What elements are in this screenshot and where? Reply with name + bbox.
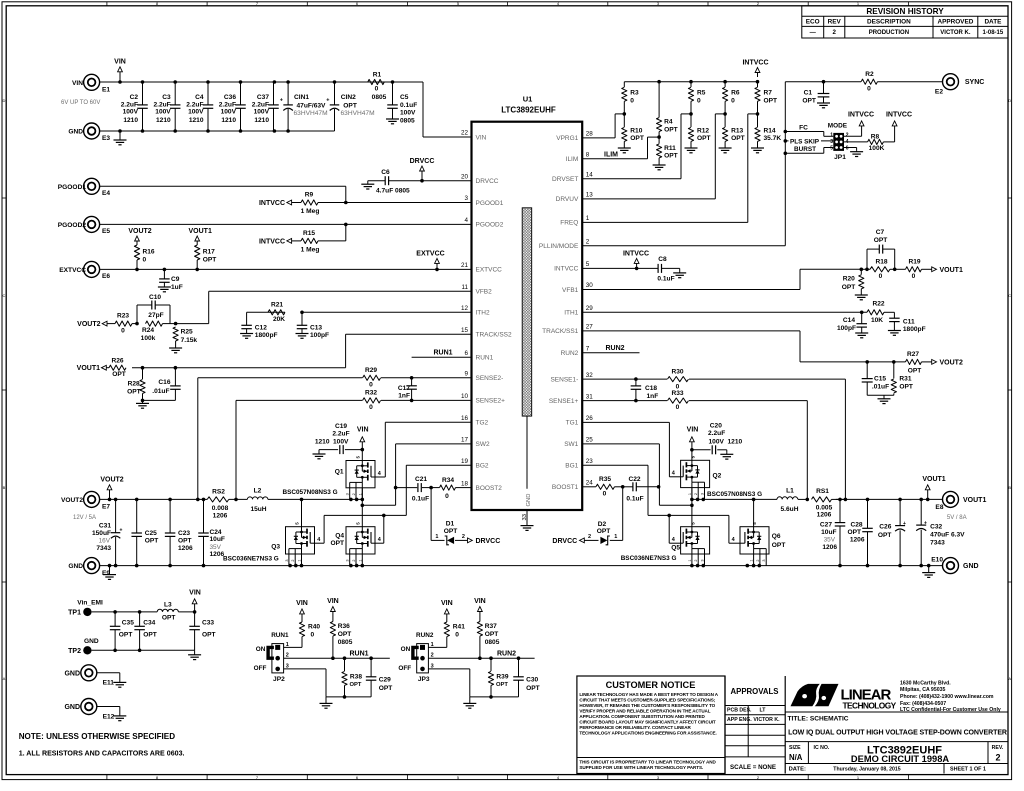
capacitor C21 [417, 483, 419, 492]
svg-text:OPT: OPT [330, 540, 344, 547]
svg-text:10uF: 10uF [210, 536, 225, 543]
svg-text:DRVCC: DRVCC [552, 538, 577, 545]
svg-text:C18: C18 [645, 385, 657, 392]
resistor R26 [109, 365, 126, 370]
svg-text:N/A: N/A [789, 753, 803, 762]
svg-text:Vin_EMI: Vin_EMI [77, 599, 103, 606]
terminal E10 GND [943, 558, 959, 574]
svg-text:PERFORMANCE OR RELIABILITY. C: PERFORMANCE OR RELIABILITY. CONTACT LINE… [579, 725, 691, 730]
svg-text:2: 2 [832, 29, 836, 36]
svg-text:FC: FC [799, 125, 808, 132]
svg-text:OPT: OPT [127, 388, 141, 395]
svg-text:VIN: VIN [72, 80, 83, 87]
net VIN arrow at R41 [446, 613, 448, 615]
svg-text:7.15k: 7.15k [181, 337, 198, 344]
svg-text:VFB1: VFB1 [562, 287, 579, 294]
net VIN arrow at R36 [332, 611, 334, 614]
svg-text:C11: C11 [903, 318, 915, 325]
svg-text:OPT: OPT [874, 237, 888, 244]
inductor L3 [157, 609, 178, 612]
svg-text:B: B [3, 485, 6, 490]
svg-text:0: 0 [912, 273, 916, 280]
svg-text:OPT: OPT [444, 528, 458, 535]
svg-text:1206: 1206 [817, 512, 832, 519]
ground at C6 [367, 181, 369, 185]
svg-text:RUN1: RUN1 [476, 355, 494, 362]
svg-text:DESCRIPTION: DESCRIPTION [867, 19, 911, 26]
svg-text:1: 1 [750, 559, 754, 561]
svg-text:OPT: OPT [202, 632, 216, 639]
svg-text:24: 24 [586, 480, 594, 487]
svg-text:31: 31 [586, 393, 594, 400]
wire pin 23 BG1 to Q5 Q6 gates [582, 464, 648, 466]
transistor Q2 [681, 460, 710, 487]
svg-text:SCALE = NONE: SCALE = NONE [730, 764, 776, 771]
svg-text:2: 2 [291, 559, 295, 561]
svg-text:TP2: TP2 [68, 648, 81, 655]
border zone ticks [106, 2, 108, 6]
capacitor C31 [115, 499, 117, 532]
svg-text:2.2uF: 2.2uF [219, 101, 236, 108]
svg-text:RUN2: RUN2 [561, 350, 579, 357]
svg-text:A: A [3, 676, 6, 681]
svg-text:Q6: Q6 [772, 533, 781, 540]
resistor R17 [195, 245, 200, 260]
svg-text:ON: ON [401, 646, 411, 653]
svg-text:FREQ: FREQ [560, 220, 578, 227]
wire VOUT2 rail [100, 498, 208, 500]
wire BURST row [785, 152, 824, 154]
wire JP2 pin2 RUN1 net [284, 657, 390, 659]
svg-text:0805: 0805 [485, 639, 500, 646]
title block box [785, 711, 1008, 713]
svg-text:BSC036NE7NS3 G: BSC036NE7NS3 G [223, 556, 279, 563]
svg-text:1: 1 [286, 642, 289, 648]
svg-text:27: 27 [586, 324, 594, 331]
resistor R25 [173, 327, 178, 341]
ground at C33 [194, 650, 196, 655]
resistor R12 [690, 114, 692, 127]
ground at E3 [119, 131, 121, 140]
wire TP1 rail [92, 611, 158, 613]
wire VIN to pin 22 [422, 82, 424, 137]
svg-text:VOUT2: VOUT2 [128, 228, 151, 235]
svg-text:0.1uF: 0.1uF [400, 102, 417, 109]
wire pin 6 RUN1 stub [412, 356, 472, 358]
svg-text:26: 26 [586, 415, 594, 422]
svg-text:1800pF: 1800pF [255, 332, 278, 339]
svg-text:0: 0 [697, 97, 701, 104]
svg-text:4: 4 [464, 217, 468, 224]
svg-text:C34: C34 [143, 620, 155, 627]
svg-text:OPT: OPT [143, 632, 157, 639]
capacitor C28 [867, 499, 869, 528]
svg-text:BSC057N08NS3 G: BSC057N08NS3 G [707, 491, 762, 498]
capacitor C23 [169, 499, 171, 533]
svg-text:C19: C19 [335, 423, 347, 430]
wire pin 16 TG2 to Q1 gate [385, 421, 471, 423]
svg-text:R19: R19 [908, 259, 920, 266]
svg-text:VOUT1: VOUT1 [77, 365, 100, 372]
svg-text:0: 0 [143, 257, 147, 264]
ground at JP3 [469, 697, 471, 704]
terminal E4 PGOOD1 [84, 178, 100, 194]
svg-text:10K: 10K [871, 317, 883, 324]
svg-text:OPT: OPT [343, 102, 357, 109]
svg-text:1: 1 [688, 493, 692, 495]
svg-text:7343: 7343 [930, 540, 945, 547]
svg-text:GND: GND [68, 129, 83, 136]
svg-text:0805: 0805 [372, 94, 387, 101]
capacitor C19 [345, 449, 362, 451]
svg-text:1uF: 1uF [171, 284, 183, 291]
svg-text:CIRCUIT BOARD LAYOUT MAY SIGNI: CIRCUIT BOARD LAYOUT MAY SIGNIFICANTLY A… [579, 720, 716, 725]
wire pin 11 VFB2 [209, 290, 472, 292]
resistor RS1 [812, 497, 832, 502]
svg-text:3: 3 [346, 493, 350, 495]
svg-text:C6: C6 [381, 169, 390, 176]
svg-text:ILIM: ILIM [566, 156, 579, 163]
wire pin 18 BOOST2 [456, 487, 472, 489]
resistor R10 [623, 114, 625, 127]
capacitor C20 [692, 449, 711, 451]
svg-text:13: 13 [586, 192, 594, 199]
svg-text:0: 0 [879, 273, 883, 280]
svg-text:OPT: OPT [485, 631, 499, 638]
junction dots VOUT2 rail [108, 498, 112, 502]
svg-text:E1: E1 [102, 86, 110, 93]
capacitor C34 [139, 612, 141, 626]
svg-text:100V: 100V [400, 110, 416, 117]
net VOUT1 arrow at R26 [102, 365, 107, 370]
node DRVCC arrow [420, 179, 424, 183]
svg-text:+: + [903, 521, 906, 527]
svg-text:APP ENG.: APP ENG. [727, 717, 752, 723]
svg-text:9: 9 [464, 371, 468, 378]
capacitor CIN2 [334, 82, 336, 105]
svg-text:L1: L1 [786, 488, 794, 495]
svg-text:R15: R15 [303, 230, 315, 237]
svg-text:OPT: OPT [664, 126, 678, 133]
svg-text:TP1: TP1 [68, 609, 81, 616]
svg-text:R26: R26 [111, 357, 123, 364]
capacitor C37 [273, 82, 275, 105]
svg-text:C24: C24 [210, 529, 222, 536]
svg-text:VFB2: VFB2 [476, 289, 493, 296]
wire JP1 pin6 to ground [844, 147, 857, 149]
svg-text:100V: 100V [221, 108, 237, 115]
svg-text:1nF: 1nF [647, 393, 659, 400]
svg-text:OPT: OPT [496, 682, 508, 688]
svg-text:R10: R10 [630, 128, 642, 135]
svg-text:VERIFY PROPER AND RELIABLE OPE: VERIFY PROPER AND RELIABLE OPERATION IN … [579, 709, 710, 714]
svg-text:SENSE2-: SENSE2- [476, 375, 504, 382]
svg-text:D: D [1008, 98, 1011, 103]
svg-text:R36: R36 [338, 623, 350, 630]
capacitor C24 [203, 499, 205, 533]
svg-text:100pF: 100pF [837, 325, 856, 332]
resistor R33 [668, 398, 689, 403]
svg-text:15uH: 15uH [250, 506, 266, 513]
svg-text:C10: C10 [149, 294, 161, 301]
svg-text:RUN2: RUN2 [605, 345, 624, 352]
transistor Q1 [346, 461, 375, 488]
svg-text:1 Meg: 1 Meg [301, 246, 320, 253]
resistor R34 [440, 485, 456, 490]
svg-text:100V: 100V [155, 108, 171, 115]
svg-text:TG1: TG1 [566, 420, 579, 427]
net VOUT1 arrow at R19 [932, 267, 937, 272]
svg-text:VOUT1: VOUT1 [922, 476, 945, 483]
svg-text:1: 1 [358, 559, 362, 561]
wire pin 15 TRACK/SS2 [346, 333, 472, 335]
diode D1 [430, 488, 432, 541]
junction dots GND rail [108, 564, 112, 568]
svg-text:VOUT2: VOUT2 [940, 359, 963, 366]
svg-text:0805: 0805 [400, 117, 415, 124]
capacitor C35 [114, 612, 116, 626]
capacitor C5 [392, 82, 394, 105]
svg-text:D: D [3, 98, 6, 103]
svg-text:OPT: OPT [597, 528, 611, 535]
svg-text:0: 0 [630, 97, 634, 104]
svg-text:EXTVCC: EXTVCC [416, 251, 444, 258]
svg-text:TECHNOLOGY APPLICATIONS ENGINE: TECHNOLOGY APPLICATIONS ENGINEERING FOR … [579, 730, 716, 735]
svg-text:2: 2 [694, 559, 698, 561]
wire JP2 pin3 to ground [284, 668, 326, 670]
svg-text:R21: R21 [271, 302, 283, 309]
svg-text:OFF: OFF [398, 665, 411, 672]
svg-text:SENSE2+: SENSE2+ [476, 398, 506, 405]
resistor RS2 [207, 497, 229, 502]
resistor R28 [142, 368, 144, 379]
svg-text:35.7K: 35.7K [764, 135, 782, 142]
svg-text:0.1uF: 0.1uF [657, 276, 674, 283]
svg-text:47uF/63V: 47uF/63V [297, 102, 327, 109]
svg-text:1210: 1210 [189, 117, 204, 124]
svg-text:C15: C15 [874, 376, 886, 383]
svg-text:1206: 1206 [850, 537, 865, 544]
svg-text:CIN2: CIN2 [341, 94, 356, 101]
svg-text:VPRG1: VPRG1 [556, 135, 578, 142]
wire pin 10 SENSE2+ [381, 399, 472, 401]
capacitor C14 [861, 312, 863, 323]
svg-text:LTC3892EUHF: LTC3892EUHF [501, 106, 556, 115]
svg-text:JP2: JP2 [273, 676, 285, 683]
svg-text:E10: E10 [931, 557, 943, 564]
svg-text:30: 30 [586, 282, 594, 289]
svg-text:3: 3 [346, 559, 350, 561]
net VIN arrow at R37 [479, 611, 481, 614]
svg-text:C26: C26 [879, 524, 891, 531]
resistor R6 [724, 82, 726, 87]
svg-text:R39: R39 [496, 674, 508, 681]
svg-text:R7: R7 [764, 90, 773, 97]
svg-text:0: 0 [311, 632, 315, 639]
svg-text:TRACK/SS2: TRACK/SS2 [476, 332, 513, 339]
Q6 source stubs [754, 548, 767, 550]
svg-text:SW2: SW2 [476, 441, 490, 448]
svg-text:C1: C1 [804, 90, 813, 97]
svg-text:DRVUV: DRVUV [556, 196, 579, 203]
svg-text:1: 1 [614, 534, 617, 540]
svg-text:GND: GND [84, 638, 99, 645]
svg-text:18: 18 [461, 480, 469, 487]
terminal E6 EXTVCC [84, 261, 100, 277]
terminal E12 GND [81, 699, 97, 715]
svg-text:PLLIN/MODE: PLLIN/MODE [539, 243, 579, 250]
resistor R35 [596, 484, 615, 489]
svg-text:B: B [1008, 485, 1011, 490]
svg-text:+: + [280, 98, 283, 104]
svg-text:3: 3 [285, 559, 289, 561]
svg-text:0: 0 [676, 404, 680, 411]
svg-text:0.005: 0.005 [816, 504, 833, 511]
svg-text:OPT: OPT [908, 368, 922, 375]
svg-text:OPT: OPT [203, 257, 217, 264]
wire pin 5 INTVCC [582, 267, 658, 269]
svg-text:1800pF: 1800pF [903, 326, 926, 333]
terminal E8 VOUT1 [943, 491, 959, 507]
capacitor C12 [246, 312, 248, 325]
terminal E3 GND [84, 123, 100, 139]
svg-text:10: 10 [461, 393, 469, 400]
svg-text:R33: R33 [671, 390, 683, 397]
svg-text:VOUT2: VOUT2 [100, 477, 123, 484]
junction dots EXTVCC [135, 268, 139, 272]
svg-text:1: 1 [298, 559, 302, 561]
wire VPRG1 pin 28 [615, 113, 624, 115]
svg-text:C30: C30 [526, 677, 538, 684]
svg-text:10uF: 10uF [821, 529, 836, 536]
svg-text:1nF: 1nF [398, 393, 410, 400]
svg-text:SENSE1+: SENSE1+ [549, 398, 579, 405]
junction dot C19 VIN [361, 448, 365, 452]
capacitor C36 [240, 82, 242, 105]
svg-text:R11: R11 [664, 145, 676, 152]
svg-text:RUN2: RUN2 [416, 632, 434, 639]
svg-text:1210: 1210 [221, 117, 236, 124]
wire pin 32 SENSE1- [582, 378, 667, 380]
svg-text:E6: E6 [102, 273, 110, 280]
capacitor C6 [384, 176, 386, 185]
svg-text:RUN2: RUN2 [497, 650, 516, 657]
svg-text:100K: 100K [869, 145, 885, 152]
net VOUT2 arrow at R23 [102, 321, 107, 326]
svg-text:ITH1: ITH1 [564, 310, 578, 317]
net VIN arrow at L3 [194, 604, 196, 612]
svg-text:APPLICATION. COMPONENT SUBSTI: APPLICATION. COMPONENT SUBSTITUTION AND … [579, 714, 705, 719]
wire SW1 rail to L1 [692, 498, 777, 500]
wire GND rail input [100, 130, 335, 132]
wire EXTVCC net [100, 268, 472, 270]
svg-text:C27: C27 [820, 522, 832, 529]
svg-text:2.2uF: 2.2uF [708, 430, 725, 437]
svg-text:0: 0 [731, 97, 735, 104]
ground at JP2 [325, 697, 327, 704]
svg-text:VOUT1: VOUT1 [963, 497, 986, 504]
svg-text:R4: R4 [664, 119, 673, 126]
svg-text:CIRCUIT THAT MEETS CUSTOMER-SU: CIRCUIT THAT MEETS CUSTOMER-SUPPLIED SPE… [579, 698, 715, 703]
transistor Q4 [346, 527, 375, 554]
svg-text:E11: E11 [103, 680, 115, 687]
svg-text:2: 2 [352, 493, 356, 495]
svg-text:1630 McCarthy Blvd.: 1630 McCarthy Blvd. [900, 680, 951, 686]
wire FREQ pin 1 [748, 113, 758, 115]
ground at C15 R31 [883, 395, 885, 399]
svg-text:CUSTOMER NOTICE: CUSTOMER NOTICE [606, 680, 696, 690]
resistor R38 [344, 658, 346, 671]
svg-text:R1: R1 [373, 71, 382, 78]
svg-text:3: 3 [464, 195, 468, 202]
svg-text:E2: E2 [935, 89, 943, 96]
svg-text:16: 16 [461, 415, 469, 422]
svg-text:C37: C37 [257, 94, 269, 101]
svg-text:CIN1: CIN1 [294, 94, 309, 101]
net VOUT2 arrow at R27 [932, 360, 937, 365]
capacitor C32 [920, 499, 922, 524]
svg-text:R6: R6 [731, 90, 740, 97]
svg-text:.01uF: .01uF [872, 384, 889, 391]
revision history table [802, 6, 1008, 38]
svg-text:GND: GND [64, 704, 80, 711]
svg-text:R22: R22 [872, 300, 884, 307]
svg-text:VIN: VIN [357, 427, 369, 434]
svg-text:BURST: BURST [794, 146, 816, 153]
svg-text:SUPPLIED FOR USE WITH LINEAR T: SUPPLIED FOR USE WITH LINEAR TECHNOLOGY … [579, 765, 703, 770]
net VOUT1 arrow above R17 [196, 240, 198, 242]
svg-text:—: — [810, 29, 817, 36]
svg-text:BSC057N08NS3 G: BSC057N08NS3 G [283, 489, 338, 496]
svg-text:0: 0 [375, 86, 379, 93]
svg-text:R35: R35 [599, 476, 611, 483]
svg-text:OPT: OPT [697, 135, 711, 142]
svg-text:0: 0 [121, 327, 125, 334]
resistor R40 [301, 614, 303, 622]
capacitor C1 [822, 80, 826, 84]
svg-text:BSC036NE7NS3 G: BSC036NE7NS3 G [621, 555, 677, 562]
svg-text:C33: C33 [202, 620, 214, 627]
svg-text:1: 1 [830, 133, 833, 139]
svg-text:EXTVCC: EXTVCC [476, 267, 503, 274]
resistor R2 [861, 79, 877, 84]
svg-text:C13: C13 [310, 324, 322, 331]
svg-text:100pF: 100pF [310, 332, 329, 339]
svg-text:GND: GND [526, 494, 532, 507]
svg-text:GND: GND [64, 670, 80, 677]
svg-text:GND: GND [68, 563, 83, 570]
svg-text:2: 2 [694, 493, 698, 495]
resistor R32 [363, 398, 381, 403]
capacitor C9 [163, 269, 165, 279]
svg-text:1206: 1206 [822, 544, 837, 551]
ground at E10 [928, 566, 930, 573]
resistor R36 [332, 612, 334, 622]
customer notice box [577, 676, 725, 774]
wire PGOOD2 net [100, 223, 472, 225]
svg-text:C: C [1008, 293, 1011, 298]
svg-text:27pF: 27pF [148, 312, 163, 319]
svg-text:R40: R40 [308, 624, 320, 631]
resistor R19 [906, 267, 922, 272]
svg-text:SW1: SW1 [564, 441, 578, 448]
svg-text:INTVCC: INTVCC [886, 112, 912, 119]
svg-text:REV.: REV. [992, 745, 1004, 751]
svg-text:100V: 100V [254, 108, 270, 115]
resistor R5 [690, 82, 692, 87]
capacitor C29 [370, 658, 372, 677]
svg-text:63HVH47M: 63HVH47M [341, 110, 375, 117]
